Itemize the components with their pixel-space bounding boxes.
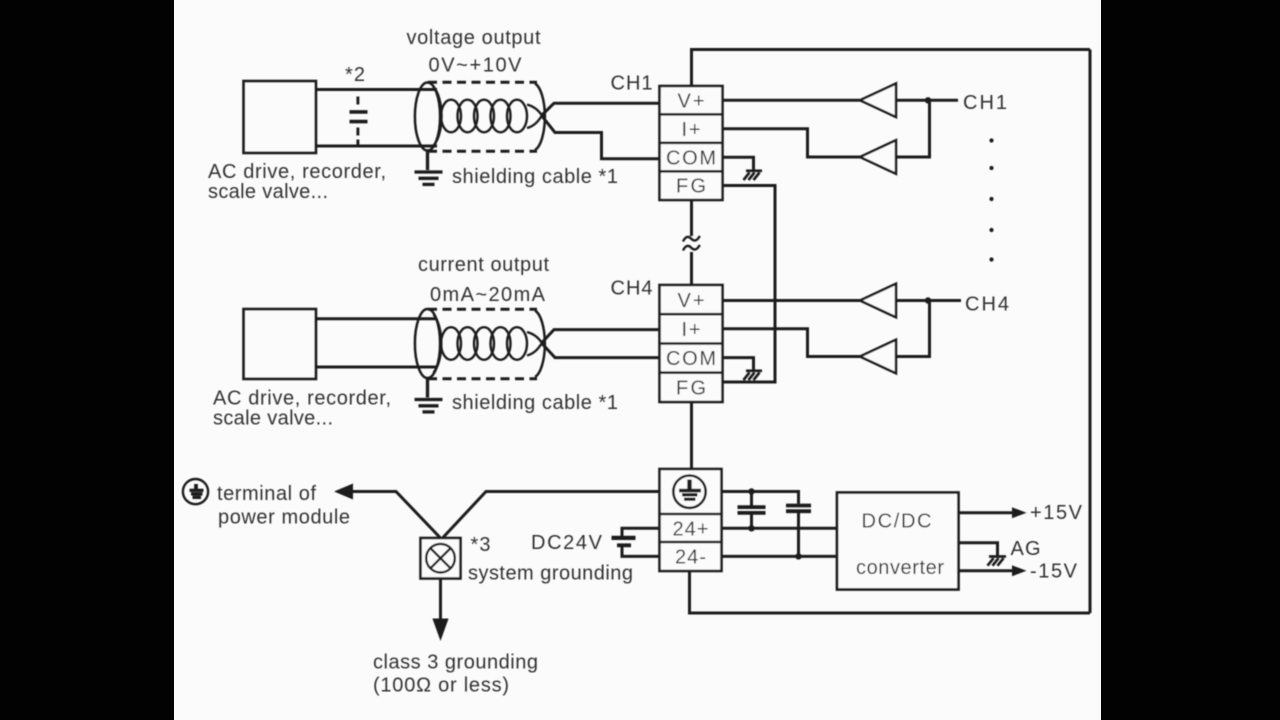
earth ground under cable 1	[415, 150, 443, 184]
capacitor *2 dashed leads	[356, 97, 359, 146]
svg-text:DC24V: DC24V	[531, 532, 603, 554]
wire amp4 up to CH4 node	[896, 301, 930, 357]
cable 1 shield inner arc	[434, 87, 442, 146]
arrowhead -15V	[1012, 565, 1027, 576]
arrowhead +15V	[1012, 507, 1027, 518]
wire break to CH4 block	[690, 252, 693, 285]
DC/DC converter box U1	[837, 493, 959, 590]
svg-text:0V~+10V: 0V~+10V	[429, 55, 523, 77]
wire 24+ to battery	[622, 528, 660, 536]
wire +15V output	[959, 511, 1014, 514]
cable 2 shield inner arc	[434, 315, 442, 373]
svg-text:+15V: +15V	[1030, 502, 1083, 524]
wire earth cell to V junction	[443, 492, 660, 538]
terminal of power module circle symbol	[183, 479, 208, 504]
wire V+ to amplifier	[723, 99, 861, 102]
wire box1 lower to cable1	[316, 145, 437, 148]
svg-text:CH1: CH1	[963, 92, 1007, 114]
module outline top edge	[692, 50, 1091, 87]
node CH4 junction dot	[925, 297, 931, 303]
cable 1 coil loops	[441, 100, 542, 133]
capacitor *2 plates	[350, 112, 368, 122]
earth electrode circle X symbol	[426, 544, 455, 573]
filter capacitor C1	[738, 492, 766, 529]
wire 24+ to DC/DC converter	[722, 527, 838, 530]
wire box1 upper to cable1	[316, 88, 437, 91]
svg-text:shielding cable *1: shielding cable *1	[452, 392, 618, 414]
wire cable2 to I+	[542, 330, 662, 343]
svg-text:CH1: CH1	[611, 73, 653, 95]
wire -15V output	[959, 569, 1014, 572]
signal ground at COM CH4	[744, 371, 763, 380]
op-amp CH1 lower	[860, 140, 896, 174]
svg-text:AG: AG	[1011, 538, 1041, 560]
svg-text:(100Ω or less): (100Ω or less)	[373, 675, 509, 697]
arrowhead to terminal of power module	[334, 484, 353, 500]
wire cable1 to V+	[542, 103, 662, 115]
left letterbox bar	[0, 0, 174, 720]
svg-text:I+: I+	[682, 119, 701, 141]
svg-text:AC drive, recorder,: AC drive, recorder,	[208, 161, 386, 183]
terminal block CH4	[660, 285, 723, 402]
svg-text:DC/DC: DC/DC	[862, 511, 932, 533]
cable 2 coil loops	[441, 327, 542, 360]
right letterbox bar	[1101, 0, 1280, 720]
wire amp3 to CH4 node	[896, 299, 961, 302]
ellipsis dots between CH1 and CH4	[989, 138, 993, 142]
node CH1 junction dot	[925, 97, 931, 103]
svg-text:class 3 grounding: class 3 grounding	[373, 652, 538, 674]
terminal labels CH4	[666, 290, 716, 400]
svg-text:scale valve...: scale valve...	[208, 181, 328, 203]
cable 2 dashed outline top	[428, 308, 537, 311]
system grounding box *3	[421, 538, 461, 579]
node cap2 bottom dot	[795, 553, 801, 559]
wire V junction to arrow (terminal of power module)	[352, 492, 440, 538]
power terminal block	[660, 469, 722, 571]
svg-text:shielding cable *1: shielding cable *1	[452, 166, 618, 188]
svg-text:system grounding: system grounding	[468, 563, 633, 585]
device box 2 (AC drive, recorder, scale valve)	[244, 309, 317, 379]
svg-text:current output: current output	[418, 254, 549, 276]
svg-text:power module: power module	[218, 507, 350, 529]
wire amp1 to CH1 node	[896, 99, 958, 102]
svg-text:converter: converter	[856, 557, 944, 579]
cable 1 right end arc	[535, 84, 545, 151]
svg-text:AC drive, recorder,: AC drive, recorder,	[213, 388, 391, 410]
cable 1 dashed outline top	[428, 81, 537, 84]
op-amp CH1 upper	[860, 84, 896, 118]
filter capacitor C2	[786, 506, 811, 557]
wire amp2 up to CH1 node	[896, 100, 930, 157]
line break squiggle	[683, 236, 700, 251]
terminal labels power block	[673, 518, 709, 568]
svg-text:FG: FG	[676, 176, 706, 198]
svg-text:CH4: CH4	[965, 294, 1009, 316]
module outline bottom edge	[690, 571, 1091, 613]
module outline right edge	[1089, 50, 1092, 614]
wire V+ CH4 to amplifier	[723, 299, 861, 302]
svg-text:voltage output: voltage output	[407, 27, 541, 49]
wire FG CH1 down to FG CH4	[723, 186, 776, 383]
signal ground at COM CH1	[744, 171, 763, 180]
wire earth cell right to capacitors	[722, 492, 799, 504]
wire cable1 to COM (step)	[542, 116, 662, 159]
svg-text:*3: *3	[471, 534, 491, 556]
svg-text:*2: *2	[345, 64, 365, 86]
wire 24- to battery	[622, 547, 660, 556]
wire COM to signal ground	[723, 157, 754, 170]
wire *3 box down to class 3 grounding	[439, 579, 442, 620]
earth ground under cable 2	[415, 377, 443, 412]
protective earth terminal symbol in block	[673, 476, 705, 508]
svg-text:0mA~20mA: 0mA~20mA	[430, 284, 546, 306]
wire block CH1 down with break	[690, 200, 693, 236]
cable 2 right end arc	[535, 311, 545, 378]
wire 24- to DC/DC converter	[722, 555, 838, 558]
svg-text:COM: COM	[666, 348, 716, 370]
svg-text:24+: 24+	[673, 518, 709, 540]
cable 2 shield ellipse	[415, 309, 440, 378]
svg-text:I+: I+	[682, 319, 701, 341]
svg-text:terminal of: terminal of	[217, 483, 316, 505]
op-amp CH4 upper	[860, 284, 896, 318]
wire cable2 to COM	[542, 343, 662, 358]
wire I+ step to amp2	[723, 129, 861, 157]
battery DC24V plates	[612, 536, 636, 540]
wire I+ CH4 step to amp4	[723, 329, 861, 357]
cable 2 dashed outline bottom	[428, 377, 537, 380]
node cap1 bottom dot	[748, 525, 754, 531]
terminal block CH1	[660, 86, 723, 200]
wire box2 upper to cable2	[316, 317, 437, 320]
wire box2 lower to cable2	[316, 366, 437, 369]
svg-text:scale valve...: scale valve...	[213, 408, 333, 430]
svg-text:COM: COM	[666, 147, 716, 169]
arrowhead down to class 3 grounding	[432, 619, 448, 642]
wire AG output to signal ground	[959, 543, 998, 556]
terminal labels CH1	[666, 90, 716, 197]
node cap1 top dot	[748, 488, 754, 494]
svg-text:FG: FG	[676, 378, 706, 400]
svg-text:CH4: CH4	[611, 278, 653, 300]
wire CH4 block down to power block	[690, 402, 693, 469]
svg-text:24-: 24-	[675, 547, 706, 569]
signal ground AG	[988, 557, 1007, 566]
cable 1 shield ellipse	[415, 83, 440, 151]
wire COM CH4 to signal ground	[723, 358, 754, 371]
op-amp CH4 lower	[860, 340, 896, 374]
cable 1 dashed outline bottom	[428, 150, 537, 153]
device box 1 (AC drive, recorder, scale valve)	[244, 81, 317, 153]
